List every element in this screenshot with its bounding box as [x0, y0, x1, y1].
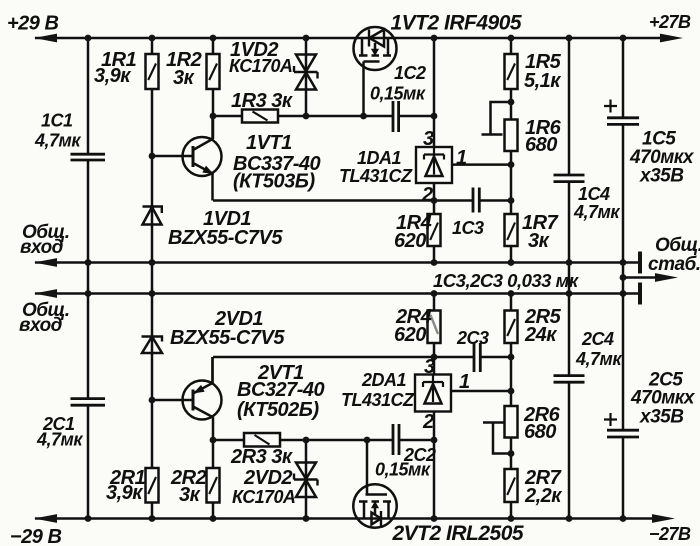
wire 2VT2 gate lead: [366, 440, 369, 495]
wire 1R3/1C2 net y=116: [213, 115, 434, 118]
svg-text:0,15мк: 0,15мк: [375, 460, 431, 480]
capacitor 2C4: [554, 376, 585, 383]
svg-text:вход: вход: [19, 315, 63, 336]
svg-text:3,9к: 3,9к: [106, 482, 143, 504]
IC 1DA1 TL431CZ shunt regulator: [416, 147, 452, 183]
resistor 1R3: [242, 110, 278, 123]
svg-text:3: 3: [424, 356, 435, 378]
node 1VT1 base: [149, 153, 156, 160]
wire lower common rail: [35, 292, 640, 295]
wire 1C1/2C1 column x=88: [87, 38, 90, 519]
svg-text:(КТ503Б): (КТ503Б): [233, 171, 315, 193]
svg-text:3к: 3к: [173, 67, 195, 89]
node bottom rail junctions: [85, 515, 92, 522]
wire 1VT1 emitter / 1DA1 pin2 net y=200.5: [213, 199, 511, 202]
svg-text:2VD2: 2VD2: [243, 467, 292, 489]
wire 2DA1 pin1 net: [451, 390, 511, 393]
wire 2R3/2C2 net y=440: [213, 439, 434, 442]
resistor 1R2: [207, 54, 220, 89]
resistor 2R6 with tap: [483, 406, 518, 454]
node -29V arrow: [34, 514, 57, 523]
wire 2VD2 column x=306: [305, 440, 308, 519]
IC 2DA1 TL431CZ shunt regulator: [415, 375, 451, 412]
svg-text:стаб.: стаб.: [648, 254, 700, 275]
resistor 2R4: [428, 311, 441, 344]
node +27V arrow: [660, 34, 683, 43]
wire 1C4/2C4 column x=569: [568, 38, 571, 519]
transistor 2VT2 IRL2505 N-MOSFET: [353, 484, 396, 527]
capacitor 1C1: [71, 154, 106, 160]
wire top rail +29V to +27V: [35, 37, 664, 40]
node common input lower arrow: [34, 289, 57, 298]
svg-text:1VT1: 1VT1: [246, 132, 292, 154]
svg-text:3,9к: 3,9к: [94, 65, 131, 87]
capacitor 2C5 polarized: [604, 413, 639, 437]
resistor 2R5: [505, 311, 518, 344]
capacitor 2C1: [71, 399, 106, 406]
resistor 1R1: [146, 54, 159, 89]
svg-text:+27В: +27В: [649, 12, 691, 32]
wire 1VT1 base: [152, 155, 193, 158]
wire upper common rail: [35, 261, 640, 264]
wire 1VT2 gate lead: [362, 62, 365, 117]
node y440 junctions: [210, 437, 217, 444]
node +29V arrow: [34, 34, 57, 43]
node output: [620, 274, 627, 281]
capacitor 1C4: [554, 175, 585, 182]
node top rail junctions: [85, 35, 92, 42]
resistor 1R6 with tap: [482, 102, 518, 151]
node 1DA1 pin1: [508, 161, 515, 168]
zener 2VD1: [142, 337, 163, 354]
wire 1DA1 pin1 net: [452, 163, 511, 166]
svg-text:3: 3: [423, 128, 434, 150]
svg-text:2: 2: [421, 184, 433, 206]
svg-text:1C1: 1C1: [41, 111, 73, 131]
svg-text:х35В: х35В: [639, 166, 684, 187]
svg-text:+29 В: +29 В: [7, 13, 58, 35]
wire 2VT1 collector / 2R2 column lower: [212, 417, 215, 519]
node lower common junctions: [85, 290, 92, 297]
node 1R6 tap top: [508, 99, 515, 106]
resistor 1R7: [505, 214, 518, 246]
wire output arrow stub: [623, 276, 662, 279]
transistor 1VT2 IRF4905 P-MOSFET: [354, 27, 397, 70]
svg-text:620: 620: [394, 230, 426, 252]
svg-text:Общ.: Общ.: [655, 235, 700, 256]
svg-text:2C4: 2C4: [581, 329, 614, 349]
svg-text:620: 620: [394, 324, 426, 346]
node y357 junctions: [431, 354, 438, 361]
svg-text:(КТ502Б): (КТ502Б): [237, 399, 319, 421]
resistor 2R7: [505, 469, 518, 502]
svg-text:КС170А: КС170А: [232, 487, 295, 507]
svg-text:4,7мк: 4,7мк: [36, 430, 83, 450]
svg-text:BZX55-C7V5: BZX55-C7V5: [168, 227, 283, 249]
svg-text:5,1к: 5,1к: [524, 70, 561, 92]
svg-text:0,15мк: 0,15мк: [370, 84, 426, 104]
svg-text:680: 680: [524, 421, 556, 443]
svg-text:3к: 3к: [179, 484, 201, 506]
node 2R6 tap bottom: [508, 450, 515, 457]
zener 1VD2 bidirectional: [294, 55, 318, 90]
svg-text:1: 1: [456, 147, 467, 169]
resistor 1R4: [428, 214, 441, 246]
svg-text:х35В: х35В: [639, 407, 684, 428]
node terminal bar upper: [638, 252, 642, 274]
resistor 2R1: [146, 468, 159, 503]
svg-text:1C2: 1C2: [394, 63, 426, 83]
node y116 junctions: [210, 113, 217, 120]
svg-text:1C4: 1C4: [578, 184, 610, 204]
svg-text:1C3,2C3 0,033 мк: 1C3,2C3 0,033 мк: [433, 270, 580, 291]
wire 1R5..1R7 column x=511 upper: [510, 38, 513, 263]
svg-text:3к: 3к: [528, 230, 550, 252]
wire 2VT1 emitter column lower: [211, 357, 214, 383]
zener 2VD2 bidirectional: [294, 463, 318, 498]
wire 1VD2 column x=306: [305, 38, 308, 116]
resistor 2R3: [244, 433, 280, 447]
wire emitter column x=213 upper: [211, 174, 214, 201]
svg-text:4,7мк: 4,7мк: [573, 202, 620, 222]
svg-text:24к: 24к: [524, 324, 557, 346]
wire 2R4/2DA1 column x=434 lower: [433, 294, 436, 519]
svg-text:2: 2: [422, 411, 434, 433]
svg-text:1: 1: [459, 371, 470, 393]
node 2DA1 pin1: [508, 388, 515, 395]
svg-text:TL431CZ: TL431CZ: [341, 390, 415, 410]
capacitor 1C3: [473, 188, 479, 213]
wire 2VT1 emitter / 2DA1 pin3 net y=357: [213, 356, 511, 359]
svg-text:BZX55-C7V5: BZX55-C7V5: [170, 327, 285, 349]
svg-text:−29 В: −29 В: [10, 526, 61, 546]
node common stab arrow: [655, 273, 678, 282]
capacitor 1C5 polarized: [604, 100, 639, 125]
resistor 2R2: [207, 468, 220, 503]
svg-text:вход: вход: [20, 237, 64, 258]
wire bottom rail -29V to -27V: [35, 517, 656, 520]
capacitor 2C2: [393, 424, 399, 455]
svg-text:4,7мк: 4,7мк: [575, 349, 622, 369]
node upper common junctions: [85, 259, 92, 266]
svg-text:2,2к: 2,2к: [524, 485, 562, 507]
svg-text:680: 680: [525, 134, 557, 156]
svg-text:2VT2 IRL2505: 2VT2 IRL2505: [392, 522, 524, 545]
svg-text:1C3: 1C3: [452, 218, 484, 238]
svg-text:470мкх: 470мкх: [630, 388, 696, 409]
svg-text:−27В: −27В: [649, 524, 691, 544]
resistor 1R5: [505, 54, 518, 89]
transistor 1VT1 BC337-40: [183, 116, 222, 176]
wire 1R2 / collector column x=213 upper: [212, 38, 215, 139]
svg-text:КС170А: КС170А: [229, 56, 292, 76]
svg-text:1VT2 IRF4905: 1VT2 IRF4905: [391, 12, 522, 35]
svg-text:2C3: 2C3: [456, 328, 489, 348]
wire 1R1/1VD1/2VD1/2R1 column x=152: [151, 38, 154, 519]
transistor 2VT1 BC327-40: [183, 357, 222, 420]
svg-text:1DA1: 1DA1: [357, 148, 402, 168]
node common input upper arrow: [34, 258, 57, 267]
node 2VT1 base: [149, 397, 156, 404]
node y200 junctions: [431, 197, 438, 204]
wire 2R5..2R7 column x=511 lower: [510, 294, 513, 519]
svg-text:TL431CZ: TL431CZ: [339, 166, 413, 186]
capacitor 1C2: [393, 101, 399, 132]
node -27V arrow: [652, 514, 675, 523]
svg-text:2DA1: 2DA1: [361, 370, 407, 390]
wire 1C5/2C5 column x=623: [622, 38, 625, 519]
svg-text:4,7мк: 4,7мк: [34, 131, 81, 151]
wire 2VT1 base: [152, 399, 193, 402]
svg-text:BC327-40: BC327-40: [237, 379, 325, 401]
wire 1DA1/1R4 column x=434 upper: [433, 38, 436, 263]
capacitor 2C3: [474, 343, 480, 372]
node terminal bar lower: [638, 283, 642, 305]
svg-text:1R3 3к: 1R3 3к: [231, 90, 293, 112]
svg-text:2R3 3к: 2R3 3к: [230, 446, 293, 468]
zener 1VD1: [143, 207, 162, 225]
